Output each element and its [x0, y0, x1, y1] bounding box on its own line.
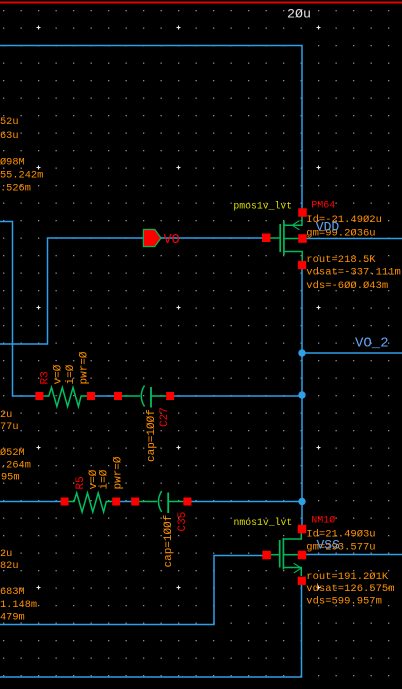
wire: vertical trunk PM64 drain to NM10 drain: [301, 269, 303, 527]
svg-text:479m: 479m: [0, 612, 25, 624]
svg-text:vdsat=126.575m: vdsat=126.575m: [306, 583, 394, 595]
NM10 source pin: [298, 577, 306, 585]
NM10 gate pin: [262, 551, 271, 560]
annotations of off-screen device (left top): [0, 116, 43, 195]
svg-text:pmos1v_lvt: pmos1v_lvt: [233, 201, 292, 212]
svg-text:rout=191.2Ø1K: rout=191.2Ø1K: [306, 571, 389, 583]
svg-text:82u: 82u: [0, 560, 19, 572]
svg-text:pwr=Ø: pwr=Ø: [79, 351, 91, 384]
R3 left pin: [35, 392, 43, 400]
svg-text:vds=599.957m: vds=599.957m: [306, 596, 382, 608]
junction at R3/C27 row: [298, 391, 305, 398]
wire: left feed down to R3: [0, 222, 36, 397]
svg-text:cap=1ØØf: cap=1ØØf: [163, 515, 175, 568]
svg-text:2Øu: 2Øu: [287, 7, 311, 22]
transistor NM10 nmos1v_lvt symbol: [271, 533, 301, 576]
svg-text:cap=1ØØf: cap=1ØØf: [146, 409, 158, 462]
wire: VO net to PM64 gate: [0, 238, 263, 344]
svg-text:nmos1v_lvt: nmos1v_lvt: [234, 517, 293, 528]
wire: VO_2 stub to right edge: [302, 352, 402, 354]
svg-text:1.148m: 1.148m: [0, 599, 37, 611]
wire: R5/C35 row segments: [0, 501, 302, 503]
svg-text:.526m: .526m: [0, 183, 31, 195]
svg-text:PM64: PM64: [311, 201, 335, 212]
svg-text:VDD: VDD: [316, 220, 340, 235]
svg-text:.264m: .264m: [0, 460, 31, 472]
wire: top rail into PM64 source: [0, 46, 302, 213]
output pin VO: [143, 230, 161, 247]
svg-text:Ø98M: Ø98M: [0, 157, 25, 169]
svg-text:VSS: VSS: [317, 537, 341, 552]
svg-text:52u: 52u: [0, 116, 19, 128]
capacitor C35: [139, 491, 183, 513]
R5 right pin: [112, 498, 120, 506]
svg-text:pwr=Ø: pwr=Ø: [112, 456, 124, 489]
C27 left pin: [114, 392, 122, 400]
PM64 bulk pin: [298, 234, 307, 243]
svg-text:77u: 77u: [0, 421, 19, 433]
svg-text:v=Ø: v=Ø: [53, 364, 65, 384]
wire: PM64 bulk to right edge (VDD): [307, 238, 402, 240]
svg-text:rout=218.5K: rout=218.5K: [306, 254, 376, 266]
PM64 gate pin: [262, 234, 271, 243]
annotations of off-screen device (left bottom): [0, 548, 37, 624]
C27 right pin: [166, 392, 174, 400]
svg-text:63u: 63u: [0, 130, 19, 142]
junction on VO_2 node: [298, 349, 305, 356]
junction at R5/C35 row: [298, 498, 305, 505]
svg-text:683M: 683M: [0, 586, 25, 598]
svg-text:95m: 95m: [1, 472, 20, 484]
C35 left pin: [131, 498, 139, 506]
PM64 drain pin: [298, 261, 306, 269]
svg-text:R5: R5: [75, 476, 87, 489]
svg-text:2u: 2u: [0, 548, 12, 560]
wire: NM10 bulk to right edge (VSS): [306, 554, 402, 556]
PM64 source pin: [298, 208, 307, 217]
svg-text:2u: 2u: [0, 409, 12, 421]
NM10 annotations: [306, 528, 394, 607]
NM10 drain pin: [298, 525, 307, 534]
svg-text:i=Ø: i=Ø: [99, 469, 111, 489]
svg-text:C27: C27: [159, 407, 171, 427]
svg-text:C35: C35: [177, 512, 189, 532]
wire: NM10 gate feed from bottom left: [0, 556, 263, 625]
svg-text:i=Ø: i=Ø: [65, 364, 77, 384]
top boundary red line: [0, 2, 402, 4]
svg-text:Ø52M: Ø52M: [0, 447, 25, 459]
R5 left pin: [61, 498, 69, 506]
svg-text:NM1Ø: NM1Ø: [311, 515, 335, 527]
svg-text:VO: VO: [164, 233, 180, 248]
annotations of off-screen device (left middle): [0, 409, 31, 484]
svg-text:vdsat=-337.111m: vdsat=-337.111m: [306, 267, 401, 279]
capacitor C27: [122, 386, 166, 408]
wire: R3 to C27 row segments: [91, 395, 302, 397]
R3 right pin: [87, 392, 95, 400]
svg-text:vds=-6ØØ.Ø43m: vds=-6ØØ.Ø43m: [306, 280, 388, 292]
NM10 bulk pin: [298, 551, 307, 560]
resistor R3: [43, 388, 87, 407]
PM64 annotations: [306, 214, 401, 292]
transistor PM64 pmos1v_lvt symbol: [270, 216, 302, 261]
resistor R5: [69, 493, 113, 512]
svg-text:R3: R3: [39, 371, 51, 384]
svg-text:55.242m: 55.242m: [0, 170, 43, 182]
wire: NM10 source to bottom rail: [0, 581, 302, 677]
C35 right pin: [183, 498, 191, 506]
svg-text:VO_2: VO_2: [355, 336, 389, 352]
